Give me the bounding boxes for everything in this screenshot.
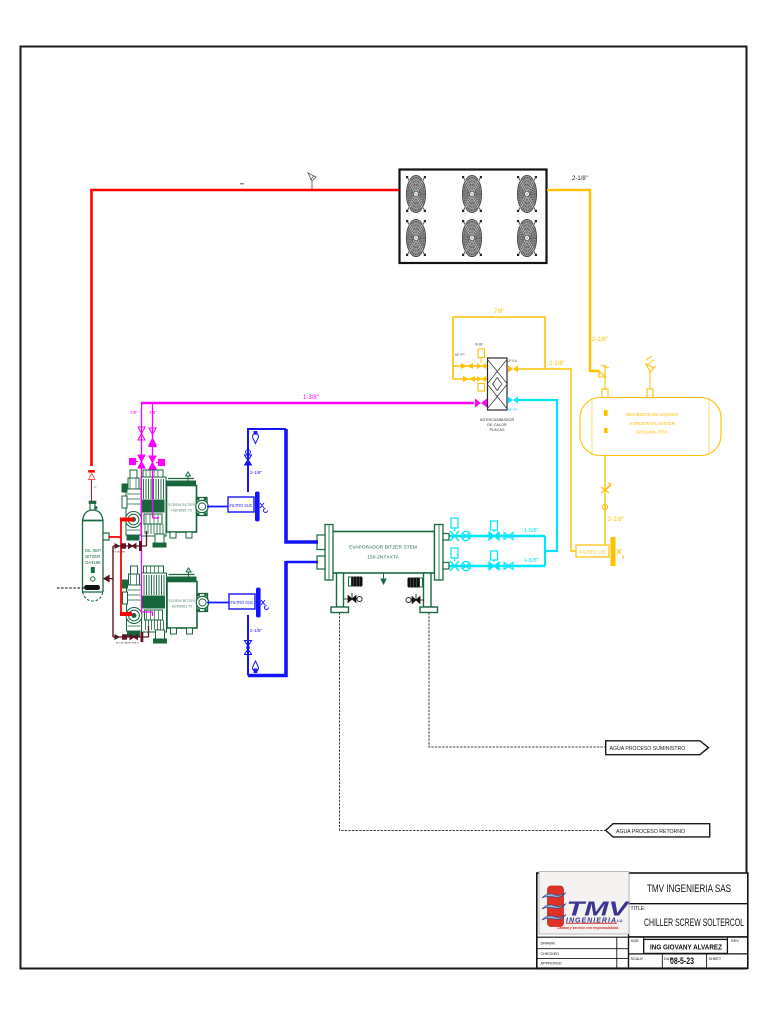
- water line to suministro: [429, 613, 605, 748]
- red compressor discharge connections: [109, 536, 121, 538]
- liquid filter FILTRO LIQ: [576, 537, 623, 566]
- compressor Q2: [123, 566, 209, 643]
- svg-text:w t oil return line s: w t oil return line s: [116, 641, 139, 645]
- angle valve under receiver: [601, 483, 611, 510]
- cyan branch 2: [449, 565, 545, 567]
- svg-text:NF FP: NF FP: [508, 408, 518, 412]
- svg-text:OIL SEP: OIL SEP: [85, 548, 101, 553]
- svg-text:INGENIERIA: INGENIERIA: [566, 918, 616, 925]
- svg-text:FILTRO SUC: FILTRO SUC: [230, 503, 253, 508]
- arrow AGUA PROCESO SUMINISTRO: [606, 741, 709, 755]
- svg-text:08-5-23: 08-5-23: [670, 956, 694, 966]
- wire hot gas bypass loop 7/8: [453, 317, 545, 379]
- service glyph bottom run: [254, 669, 258, 674]
- motor left: [349, 577, 363, 587]
- cyan branch 1: [449, 535, 545, 537]
- svg-text:2-1/8": 2-1/8": [250, 470, 262, 475]
- wire yellow condenser outlet: [547, 190, 599, 371]
- wire blue suction bottom: [247, 615, 249, 676]
- svg-text:SCREW BITZER: SCREW BITZER: [168, 503, 196, 507]
- svg-text:SIZE: SIZE: [631, 939, 640, 943]
- svg-text:APPROVED: APPROVED: [541, 962, 562, 966]
- blue valve riser1: [246, 450, 251, 455]
- svg-text:AGUA PROCESO RETORNO: AGUA PROCESO RETORNO: [616, 829, 685, 835]
- svg-text:HSK8581-70: HSK8581-70: [172, 605, 193, 609]
- svg-text:2-1/8": 2-1/8": [572, 176, 588, 182]
- wire cyan HX to evaporator: [508, 397, 518, 404]
- service glyph top run: [254, 431, 258, 435]
- svg-text:1-5/8": 1-5/8": [524, 558, 539, 564]
- receiver tank: [580, 398, 721, 456]
- svg-text:PLACAS: PLACAS: [490, 428, 505, 432]
- svg-text:2-1/8": 2-1/8": [549, 361, 565, 367]
- svg-text:LU: LU: [617, 918, 622, 923]
- svg-text:OA4188: OA4188: [85, 560, 101, 565]
- svg-text:DRAWN: DRAWN: [541, 942, 555, 946]
- heat exchanger U1: [488, 358, 508, 410]
- small valve glyph left leg: [344, 593, 362, 603]
- evaporator drain glyph: [381, 573, 386, 584]
- evaporator vessel: [317, 525, 449, 581]
- svg-text:UP KU: UP KU: [507, 359, 518, 363]
- HX left upper branch: [453, 365, 487, 367]
- svg-text:7/8": 7/8": [130, 410, 138, 415]
- HX left lower branch: [453, 378, 487, 380]
- svg-text:INTERCAMBIADOR: INTERCAMBIADOR: [480, 418, 515, 422]
- svg-text:SHEET: SHEET: [709, 957, 722, 961]
- suction filter 1: [207, 492, 268, 522]
- oil line comp2: [113, 626, 149, 642]
- svg-text:TMV INGENIERIA SAS: TMV INGENIERIA SAS: [647, 883, 731, 895]
- svg-text:TITLE:: TITLE:: [631, 906, 646, 912]
- svg-text:BITZER: BITZER: [85, 554, 100, 559]
- solenoid box lower: [478, 384, 485, 392]
- svg-text:1-3/8": 1-3/8": [303, 395, 319, 401]
- relief valve on receiver: [646, 356, 656, 389]
- wire blue suction top: [248, 429, 286, 492]
- svg-text:ING GIOVANY ALVAREZ: ING GIOVANY ALVAREZ: [650, 943, 722, 952]
- fan F2: [462, 175, 482, 212]
- oil separator vessel: [83, 501, 110, 601]
- arrow AGUA PROCESO RETORNO: [606, 824, 710, 837]
- relief glyph on red line: [308, 173, 316, 189]
- condenser box: [400, 170, 547, 264]
- fan F1: [406, 175, 426, 212]
- receiver inlet nozzle: [602, 389, 608, 398]
- svg-text:2-1/8": 2-1/8": [608, 517, 624, 523]
- evaporator legs: [331, 573, 438, 613]
- magenta stub comp1: [153, 517, 160, 519]
- svg-text:SCREW BITZER: SCREW BITZER: [168, 599, 196, 603]
- expansion valve set branch2: [450, 548, 513, 571]
- svg-text:RECIBIDOR DE LIQUIDO: RECIBIDOR DE LIQUIDO: [626, 412, 679, 417]
- suction filter 2: [207, 588, 269, 618]
- svg-text:150-2NTXXTA: 150-2NTXXTA: [367, 555, 399, 561]
- angle valve at receiver inlet: [599, 365, 609, 390]
- magenta riser 1: [141, 403, 143, 612]
- svg-text:B/V024NL-RSX: B/V024NL-RSX: [636, 430, 667, 435]
- svg-text:7/8": 7/8": [149, 410, 157, 415]
- svg-text:NF FP: NF FP: [455, 353, 465, 357]
- water line to retorno: [340, 613, 607, 831]
- check valve on red riser: [88, 470, 95, 501]
- wire magenta economizer line: [141, 402, 474, 405]
- tick on red line: [240, 183, 244, 184]
- motor right: [408, 578, 423, 588]
- svg-text:HORIZONTAL BITZER: HORIZONTAL BITZER: [629, 421, 676, 426]
- svg-text:2-1/8": 2-1/8": [250, 628, 262, 633]
- small valve glyph right leg: [406, 594, 424, 604]
- svg-text:1-5/8": 1-5/8": [524, 528, 539, 534]
- svg-text:SCALE: SCALE: [631, 957, 644, 961]
- fan F4: [406, 219, 426, 256]
- svg-text:HSK8581-70: HSK8581-70: [171, 509, 192, 513]
- magenta valves riser2: [149, 428, 165, 469]
- svg-text:CHILLER SCREW SOLTERCOL: CHILLER SCREW SOLTERCOL: [644, 917, 744, 929]
- solenoid box upper: [478, 349, 485, 358]
- svg-text:Calidad y servicio con respons: Calidad y servicio con responsabilidad.: [557, 925, 619, 930]
- HX right top valve: [508, 366, 518, 373]
- wire receiver outlet down: [604, 456, 606, 546]
- wire red discharge horizontal to condenser: [92, 190, 400, 466]
- svg-text:AGUA PROCESO SUMINISTRO: AGUA PROCESO SUMINISTRO: [610, 746, 686, 752]
- svg-text:EVAPORADOR BITZER STEM: EVAPORADOR BITZER STEM: [349, 545, 417, 551]
- magenta jog into comp2: [142, 612, 153, 616]
- svg-text:FILTRO SUC: FILTRO SUC: [231, 600, 254, 605]
- svg-text:W BF: W BF: [475, 343, 483, 347]
- svg-text:FILTRO LIQ: FILTRO LIQ: [580, 550, 607, 555]
- oil line comp1: [113, 531, 147, 551]
- maroon oil return riser: [112, 546, 114, 637]
- svg-text:DE CALOR: DE CALOR: [487, 423, 507, 427]
- expansion valve set branch1: [450, 518, 513, 541]
- svg-text:7/8": 7/8": [494, 309, 504, 315]
- svg-text:w s oil line: w s oil line: [112, 550, 125, 554]
- magenta valves riser1: [130, 427, 146, 468]
- svg-text:2-1/8": 2-1/8": [592, 337, 608, 343]
- fan F6: [517, 219, 537, 256]
- wire liquid line filter to HX: [518, 369, 576, 551]
- fan F3: [517, 175, 537, 212]
- svg-text:REV: REV: [731, 939, 739, 943]
- magenta valve at HX: [475, 399, 487, 408]
- fan F5: [462, 219, 482, 256]
- logo cell: [539, 872, 630, 935]
- compressor Q1: [122, 470, 208, 547]
- svg-text:w: w: [94, 485, 97, 489]
- crankcase heater: [84, 585, 100, 590]
- svg-text:CHECKED: CHECKED: [541, 952, 560, 956]
- title block: [537, 873, 748, 968]
